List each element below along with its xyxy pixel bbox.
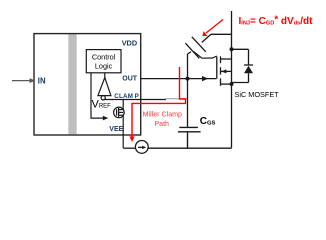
node source junction dot — [230, 82, 234, 86]
wire Cgd to gate bar — [194, 52, 217, 59]
wire gate node down to Cgs — [187, 79, 189, 127]
wire control logic to comparator — [104, 73, 106, 78]
transistor Q1 SiC MOSFET — [217, 56, 232, 148]
wire IN input arrow — [12, 78, 36, 83]
svg-text:VDD: VDD — [122, 39, 137, 48]
red path arrowhead — [129, 136, 134, 142]
svg-text:IN: IN — [38, 76, 46, 85]
capacitor Cgd (diagonal plates) — [185, 37, 205, 59]
comparator U2 (triangle with bubble) — [98, 78, 111, 100]
svg-text:Logic: Logic — [95, 62, 113, 71]
wire bottom source rail — [123, 147, 231, 149]
svg-text:VEE: VEE — [109, 126, 123, 133]
wire CLAMP net inside and outside IC — [104, 99, 166, 101]
wire VREF line from control logic down — [91, 73, 108, 121]
svg-text:Control: Control — [92, 53, 116, 62]
clamp transistor Q2 (in circle) — [114, 100, 125, 149]
svg-text:Miller Clamp: Miller Clamp — [143, 110, 182, 118]
body arrow of Q1 — [221, 69, 226, 73]
isolation barrier bar — [68, 34, 76, 134]
wire OUT to gate — [141, 76, 217, 81]
svg-text:Path: Path — [154, 120, 169, 128]
svg-text:IINJ= CGD* dVds/dt: IINJ= CGD* dVds/dt — [239, 15, 314, 27]
diode D1 body diode — [232, 49, 254, 82]
svg-text:CLAM P: CLAM P — [114, 93, 139, 100]
red miller clamp path — [132, 67, 186, 139]
gate driver IC U1 outline — [34, 34, 141, 135]
capacitor Cgs — [178, 127, 201, 148]
wire gate node up to Cgd — [188, 34, 232, 78]
svg-text:SiC MOSFET: SiC MOSFET — [235, 90, 280, 99]
svg-text:OUT: OUT — [122, 75, 138, 82]
control logic block — [86, 50, 121, 73]
wire gray stub above clamp wire — [165, 98, 188, 100]
wire drain vertical to switch node — [231, 11, 233, 59]
red dv/dt injection arrow — [202, 20, 223, 37]
current source CS1 — [135, 141, 148, 154]
node drain junction dot — [230, 47, 234, 51]
node gate junction dot — [186, 77, 190, 81]
